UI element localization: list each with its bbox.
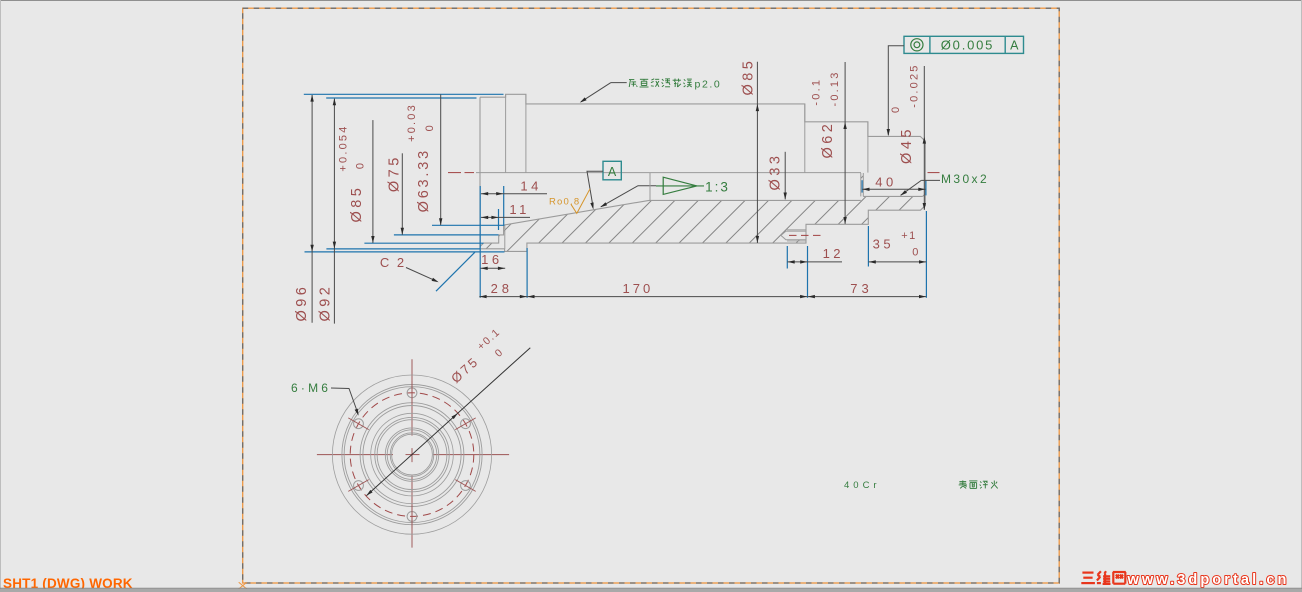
end view crosshair [317,454,393,456]
datum A leader [587,171,603,206]
taper symbol [656,185,704,187]
blue extension lines [304,93,504,95]
M6 hole centerline [789,234,825,236]
svg-text:Ø85: Ø85 [741,58,757,96]
dim D62 [844,62,846,224]
M6 hole in step face [781,231,806,240]
dim 40 [862,188,925,190]
svg-text:Ø63.33: Ø63.33 [416,148,432,212]
part outline bottom profile [480,173,925,252]
left face [479,97,481,249]
dim 170 [527,296,807,298]
svg-text:0: 0 [424,123,436,131]
svg-text:Ø62: Ø62 [820,121,836,159]
dim 11 [481,216,530,218]
svg-text:73: 73 [850,281,872,296]
knurl leader + note [611,82,627,84]
svg-text:11: 11 [509,202,530,217]
thread end verticals [860,173,862,196]
sheet top edge line [0,0,1302,2]
svg-text:Ø85: Ø85 [349,185,365,223]
datum A box [603,161,621,180]
svg-text:A: A [1010,39,1019,53]
drawing frame dashed border [243,8,1059,583]
bore: chamfer C2, D85, D75 steps [480,225,504,247]
note heat treat [962,480,964,484]
svg-text:12: 12 [823,246,844,261]
bottom bar [0,589,1302,592]
dim 14 [481,193,547,195]
bolt circle dashed [350,393,474,517]
note M30x2 [901,180,922,195]
dim 73 [808,296,927,298]
svg-text:-0.1: -0.1 [810,78,822,106]
dim 16 [480,267,505,269]
part outline top profile [480,94,925,172]
svg-text:16: 16 [481,252,502,267]
svg-text:Ø45: Ø45 [899,126,915,164]
feature control frame [904,36,1024,53]
svg-text:170: 170 [623,281,654,296]
svg-text:40Cr: 40Cr [844,480,881,491]
shoulder face projection lines [505,94,507,172]
dim 12 [787,261,842,263]
chamfer extension (blue diagonal) [436,252,475,291]
svg-text:Ø96: Ø96 [294,284,310,322]
svg-text:28: 28 [491,281,513,296]
taper end vertical [649,173,651,201]
BC dimension diagonal [367,348,531,496]
svg-text:0: 0 [355,161,367,169]
svg-text:C 2: C 2 [380,255,406,270]
svg-text:+0.03: +0.03 [406,103,418,142]
dim D33 [784,152,786,200]
svg-text:Ø75: Ø75 [387,154,403,192]
dim D92 [333,99,335,324]
svg-text:Ø92: Ø92 [317,284,333,322]
svg-text:A: A [608,165,617,179]
dim 35 [869,261,927,263]
taper bore 1:3 [504,200,649,225]
svg-text:-0.13: -0.13 [829,70,841,106]
svg-text:0: 0 [890,105,902,113]
M6 holes [407,388,417,398]
svg-text:1:3: 1:3 [705,179,730,194]
svg-text:40: 40 [875,174,896,189]
bore D33 line [649,199,861,201]
svg-text:0: 0 [912,246,920,258]
watermark [1082,571,1093,573]
frame corner mark [239,582,247,589]
M30 thread line [863,195,922,197]
svg-text:www.3dportal.cn: www.3dportal.cn [1127,572,1290,588]
end view circles [332,375,491,534]
svg-text:Ø0.005: Ø0.005 [941,38,994,53]
dim D96 [311,95,313,323]
svg-text:M30x2: M30x2 [941,172,989,186]
svg-text:Ø33: Ø33 [767,153,783,191]
main centerline [448,172,461,174]
dim D75 bore [401,153,403,234]
svg-text:35: 35 [873,236,894,251]
svg-text:p2.0: p2.0 [695,78,722,90]
svg-text:+0.054: +0.054 [337,124,349,171]
dim D85 bore [372,120,374,243]
svg-text:Ro0.8: Ro0.8 [549,196,580,207]
taper leader [638,185,656,187]
svg-text:6·M6: 6·M6 [291,381,331,395]
svg-text:-0.025: -0.025 [909,63,921,107]
FCF leader [888,46,904,135]
dim D63.33 taper [440,95,442,226]
svg-text:14: 14 [520,179,541,194]
dim 28 [479,296,527,298]
dim D85 right [756,62,758,243]
svg-text:+1: +1 [901,230,917,242]
dim D45 [923,66,925,210]
